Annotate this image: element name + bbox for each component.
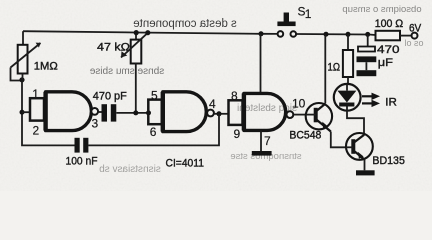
- potentiometer P1 wiper arrow: [11, 43, 41, 68]
- wire: LED cathode down and jog to BD135 collector: [347, 107, 364, 135]
- svg-text:s desta componente: s desta componente: [133, 18, 237, 30]
- NAND gate U1A body: [46, 92, 92, 131]
- wire: 47k bottom lead down to gate row: [135, 63, 137, 113]
- transistor Q1 emitter with arrow: [316, 119, 331, 132]
- IR arrow top: [362, 95, 373, 97]
- capacitor C3 470uF stem: [367, 34, 369, 46]
- NAND gate U1C output bubble pin 10: [287, 111, 294, 118]
- background paper: [0, 0, 432, 191]
- node: junction 47k / C1: [133, 110, 138, 115]
- potentiometer P1 1M ohm body: [18, 45, 28, 74]
- transistor Q1 base lead: [306, 114, 316, 116]
- node: junction at NAND1 input: [20, 110, 25, 115]
- LED D1 circle: [334, 84, 361, 111]
- NAND gate U1B body: [163, 92, 207, 132]
- svg-text:BD135: BD135: [372, 155, 405, 167]
- ground bar BD135: [356, 170, 375, 175]
- resistor R1 100 ohm body: [376, 31, 401, 41]
- transistor Q1 BC548 circle: [306, 103, 332, 129]
- svg-text:IR: IR: [385, 96, 397, 108]
- wire: pin7 down: [260, 130, 262, 151]
- ground bar below C3: [357, 70, 377, 76]
- svg-text:470 pF: 470 pF: [93, 90, 127, 102]
- svg-text:3: 3: [92, 117, 99, 131]
- capacitor C2 100nF right plate: [83, 138, 88, 153]
- NAND gate U1C body: [244, 93, 286, 130]
- svg-text:CI=4011: CI=4011: [166, 158, 205, 170]
- transistor Q2 collector: [353, 135, 364, 143]
- wire: VCC down to gate3 top (pin14): [260, 34, 262, 94]
- transistor Q1 base bar: [314, 108, 318, 123]
- svg-text:10: 10: [292, 96, 306, 110]
- wire: pin4 to NAND3 input: [214, 113, 229, 115]
- capacitor C3 negative plate: [357, 56, 377, 62]
- NAND gate U1A output bubble pin 3: [91, 108, 98, 115]
- pushbutton S1 left contact: [278, 31, 284, 37]
- svg-text:1: 1: [305, 7, 312, 21]
- transistor Q2 BD135 circle: [346, 133, 373, 160]
- transistor Q1 collector: [316, 104, 326, 112]
- wire: emitter to BD135 base: [331, 132, 346, 148]
- transistor Q2 emitter with arrow: [353, 150, 364, 159]
- pushbutton S1 plunger: [277, 13, 295, 27]
- svg-text:9: 9: [234, 127, 241, 141]
- ground below C3 stem: [365, 62, 367, 70]
- pushbutton S1 right contact: [291, 31, 297, 37]
- wire: emitter to ground: [364, 159, 366, 170]
- svg-text:470: 470: [377, 44, 400, 56]
- trimpot P2 47k body: [135, 33, 137, 40]
- wire: 1M top lead: [22, 31, 24, 45]
- node: BC548 collector junction: [324, 32, 329, 37]
- IR arrow bottom: [362, 102, 373, 104]
- LED D1 anode lead inside: [346, 84, 348, 91]
- svg-text:8: 8: [231, 89, 238, 103]
- svg-text:1MΩ: 1MΩ: [34, 60, 58, 72]
- capacitor C1 470pF right plate: [111, 104, 117, 121]
- wire: 1 ohm bottom lead to LED: [347, 77, 349, 85]
- potentiometer P1 wiper bracket wire: [11, 68, 22, 81]
- svg-text:5: 5: [151, 88, 158, 102]
- wire: pin3 to C1: [98, 111, 101, 113]
- node: 47k wiper junction on top rail: [145, 30, 150, 35]
- capacitor C2 100nF left plate: [75, 138, 80, 153]
- trimpot P2 wiper arrow: [121, 33, 148, 58]
- wire: feedback down and left to C2: [88, 114, 219, 146]
- svg-text:1: 1: [32, 87, 39, 101]
- wire: 1 ohm top lead: [347, 34, 349, 50]
- LED D1 cathode bar: [339, 103, 354, 107]
- NAND gate U1C input bracket: [229, 100, 243, 125]
- node: junction below 1M: [19, 77, 24, 82]
- wire: 1M bottom lead: [22, 74, 24, 81]
- NAND gate U1B output bubble pin 4: [207, 110, 214, 117]
- svg-text:BC548: BC548: [289, 129, 321, 141]
- node: 1 ohm junction: [346, 32, 351, 37]
- wire: top rail left section: [23, 31, 278, 34]
- svg-text:2: 2: [33, 124, 40, 138]
- svg-text:47 kΩ: 47 kΩ: [97, 42, 130, 54]
- node: 470uF junction: [365, 32, 370, 37]
- transistor Q2 base bar: [351, 139, 355, 154]
- capacitor C1 470pF left plate: [102, 104, 108, 121]
- faint bleed-through text top: [89, 4, 423, 175]
- node: VCC branch junction: [259, 31, 264, 36]
- wire: C1 to NAND2 input: [116, 112, 148, 114]
- terminal 6V: [412, 33, 418, 39]
- node: 47k top lead junction: [134, 30, 139, 35]
- svg-text:sisnstsiasv sb: sisnstsiasv sb: [99, 164, 161, 175]
- LED D1 triangle: [337, 91, 356, 103]
- wire: pin10 to BC548 base: [294, 114, 306, 116]
- svg-text:7: 7: [264, 134, 271, 148]
- svg-text:4: 4: [209, 97, 216, 111]
- wire: top rail right of switch: [296, 34, 376, 35]
- NAND gate U1A input bracket: [30, 98, 44, 120]
- svg-text:100 Ω: 100 Ω: [375, 18, 404, 30]
- node: junction feedback: [217, 111, 222, 116]
- resistor R2 1 ohm body: [343, 50, 353, 77]
- svg-text:6: 6: [150, 125, 157, 139]
- ground bar pin7: [252, 151, 272, 156]
- wire: left vertical down to bottom rail: [22, 81, 75, 146]
- svg-text:6V: 6V: [409, 22, 422, 34]
- wire: collector riser: [324, 34, 326, 103]
- node: junction at NAND2 bracket: [146, 110, 151, 115]
- transistor Q2 base lead: [346, 146, 353, 148]
- svg-text:100 nF: 100 nF: [66, 155, 98, 167]
- svg-text:1Ω: 1Ω: [328, 61, 341, 73]
- svg-text:obsoiqms o smsup: obsoiqms o smsup: [342, 4, 421, 15]
- svg-text:μF: μF: [378, 57, 393, 69]
- wire: 100 ohm to 6V terminal: [400, 35, 412, 37]
- wire: branch to NAND1 input bracket: [22, 111, 30, 113]
- NAND gate U1B input bracket: [148, 100, 162, 125]
- svg-text:sbnse smu sbise: sbnse smu sbise: [89, 66, 164, 77]
- capacitor C3 positive plate: [358, 47, 375, 52]
